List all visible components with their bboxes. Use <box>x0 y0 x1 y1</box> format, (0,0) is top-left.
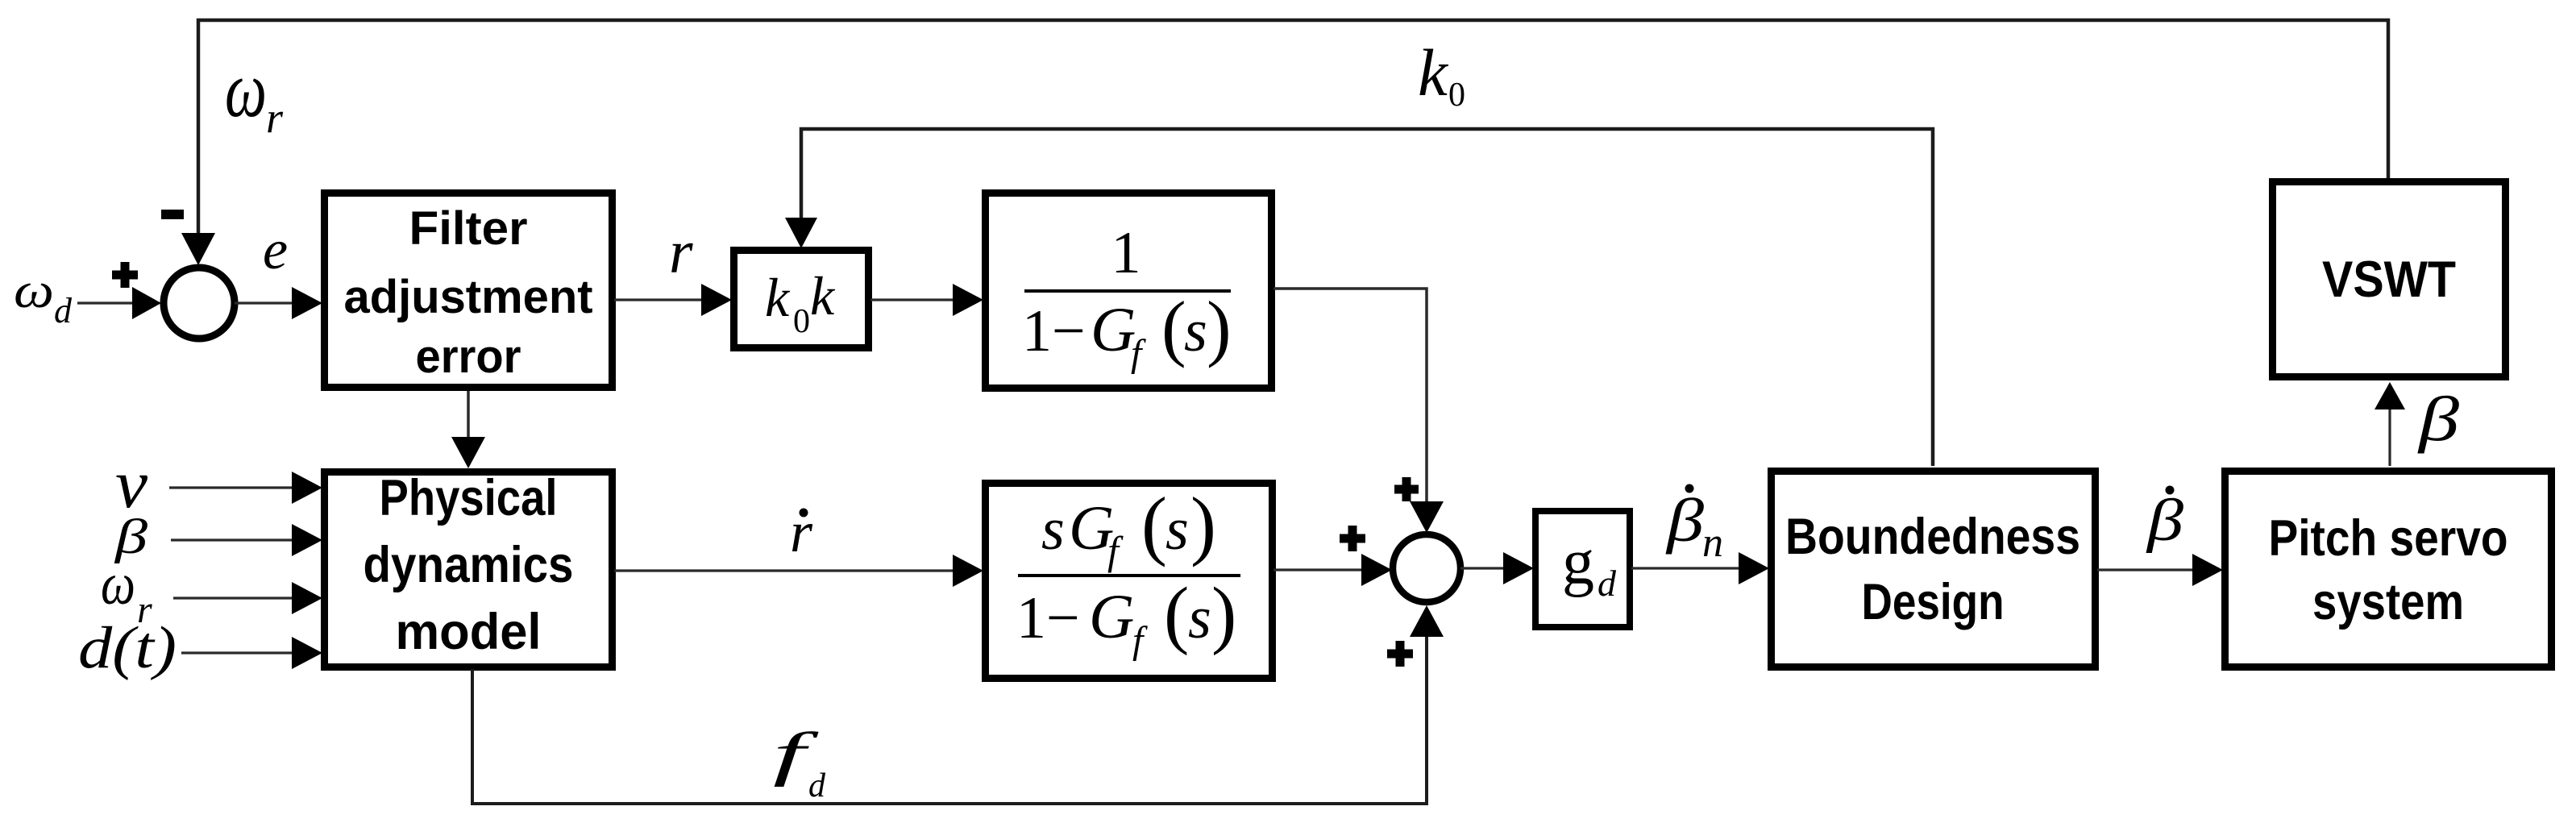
svg-text:s: s <box>1184 298 1207 364</box>
wire v input <box>169 486 293 488</box>
wire sGf block to S2 left <box>1273 568 1363 571</box>
svg-text:d(t): d(t) <box>78 615 177 681</box>
wire k0k to 1/(1-Gf(s)) <box>870 298 954 301</box>
svg-text:): ) <box>1190 481 1216 567</box>
block Physical dynamics model <box>325 470 613 667</box>
svg-text:1: 1 <box>1016 585 1046 651</box>
svg-text:β: β <box>2146 488 2184 554</box>
wire beta input <box>171 538 293 541</box>
wire S2 to g_d <box>1460 567 1505 569</box>
svg-text:d: d <box>1598 563 1617 604</box>
svg-text:Filter: Filter <box>409 202 528 255</box>
svg-text:ω: ω <box>14 264 54 318</box>
svg-text:n: n <box>1702 520 1723 566</box>
svg-text:0: 0 <box>1448 77 1465 114</box>
svg-text:VSWT: VSWT <box>2322 251 2456 308</box>
svg-text:): ) <box>1211 572 1236 656</box>
arrowhead into g_d <box>1503 552 1534 584</box>
svg-text:β: β <box>2416 384 2459 454</box>
label plus sign at S1 <box>112 262 138 288</box>
wire omega_d input to S1 <box>77 301 134 304</box>
svg-text:adjustment: adjustment <box>344 271 593 323</box>
wire g_d to Boundedness Design <box>1631 567 1740 569</box>
svg-text:s: s <box>1165 497 1189 563</box>
svg-text:(: ( <box>1141 481 1167 567</box>
label plus sign at S2 left <box>1340 526 1365 551</box>
svg-text:): ) <box>1207 286 1232 368</box>
wire Filter adjustment error down to Physical dynamics model <box>467 391 470 439</box>
svg-text:d: d <box>54 291 73 330</box>
wire Filter adjustment error to k0k <box>614 298 703 301</box>
block VSWT <box>2273 182 2506 377</box>
wire d(t) input <box>181 651 293 654</box>
svg-text:(: ( <box>1164 572 1189 656</box>
arrowhead into sGf block <box>953 555 983 587</box>
wire Boundedness Design to Pitch servo system <box>2097 568 2194 571</box>
svg-text:Pitch servo: Pitch servo <box>2269 510 2508 567</box>
svg-text:error: error <box>416 330 521 383</box>
block g_d <box>1535 511 1630 627</box>
arrowhead beta into Physical dynamics model <box>292 524 322 556</box>
svg-text:model: model <box>396 604 542 660</box>
svg-text:dynamics: dynamics <box>364 537 574 593</box>
svg-text:(: ( <box>1161 286 1186 368</box>
block Boundedness Design <box>1772 472 2096 667</box>
svg-text:Boundedness: Boundedness <box>1785 509 2080 565</box>
wire Pitch servo system to VSWT (beta) <box>2388 408 2391 466</box>
svg-text:g: g <box>1562 527 1594 598</box>
svg-text:s: s <box>1041 497 1065 563</box>
svg-text:k: k <box>765 267 791 328</box>
arrowhead into Boundedness Design <box>1739 552 1769 584</box>
wire omega_r top feedback (VSWT top to summing junction S1) <box>198 20 2388 235</box>
svg-text:1: 1 <box>1111 220 1141 286</box>
wire S1 to Filter adjustment error <box>235 301 293 304</box>
svg-text:k: k <box>1418 35 1449 110</box>
arrowhead into summing junction S1 top <box>181 233 215 265</box>
label k0 <box>1418 35 1465 114</box>
svg-text:r: r <box>266 94 284 142</box>
svg-text:Physical: Physical <box>380 470 558 526</box>
block Filter adjustment error <box>325 193 613 388</box>
label omega_r (top) <box>225 44 284 142</box>
arrowhead into k0k left <box>701 284 732 316</box>
arrowhead into 1/(1-Gf(s)) <box>953 284 983 316</box>
label omega_d input <box>14 264 73 330</box>
label plus sign at S2 bottom <box>1387 641 1413 667</box>
svg-text:β: β <box>1665 487 1705 555</box>
svg-text:G: G <box>1091 294 1136 364</box>
summing junction S2 <box>1393 534 1460 602</box>
svg-text:ω: ω <box>101 551 135 617</box>
arrowhead into VSWT bottom <box>2374 382 2405 409</box>
svg-text:0: 0 <box>793 303 810 340</box>
label beta dot <box>2146 486 2184 555</box>
arrowhead into k0k top <box>785 218 817 248</box>
label r dot <box>790 500 813 564</box>
arrowhead d(t) into Physical dynamics model <box>292 637 322 669</box>
wire 1/(1-Gf(s)) to summing junction S2 top <box>1273 289 1427 503</box>
arrowhead into S2 bottom <box>1410 605 1444 637</box>
wire omega_r input <box>173 596 293 599</box>
svg-text:−: − <box>1052 298 1086 364</box>
summing junction S1 <box>164 268 235 339</box>
arrowhead into S1 left <box>132 287 161 319</box>
svg-text:e: e <box>263 219 288 281</box>
wire k0 feedback (Boundedness Design top to k0k top) <box>801 129 1933 466</box>
arrowhead into Pitch servo system <box>2192 554 2223 586</box>
label beta_n dot <box>1665 484 1723 567</box>
svg-text:ω: ω <box>225 44 267 134</box>
arrowhead omega_r into Physical dynamics model <box>292 582 322 614</box>
wire f_d feedback (Physical dynamics model bottom to S2 bottom) <box>472 635 1427 804</box>
label f_d <box>773 721 826 804</box>
block Pitch servo system <box>2225 472 2552 667</box>
block 1/(1-Gf(s)) <box>986 193 1272 389</box>
svg-text:d: d <box>808 767 826 804</box>
label minus sign at S1 <box>161 210 184 219</box>
svg-text:1: 1 <box>1022 298 1052 364</box>
svg-text:system: system <box>2312 574 2464 630</box>
block sGf(s)/(1-Gf(s)) <box>986 481 1273 679</box>
arrowhead v into Physical dynamics model <box>292 472 322 504</box>
svg-text:G: G <box>1089 581 1134 651</box>
arrowhead into S2 left <box>1361 554 1392 586</box>
arrowhead into Filter adjustment error <box>292 287 322 319</box>
svg-text:k: k <box>810 265 836 326</box>
label omega_r input <box>101 551 152 631</box>
wire Physical dynamics model to sGf block (r dot) <box>614 569 954 572</box>
svg-text:r: r <box>669 218 693 286</box>
svg-text:−: − <box>1046 585 1080 651</box>
svg-text:s: s <box>1188 585 1211 651</box>
block k0k <box>734 251 869 348</box>
arrowhead into S2 top <box>1410 501 1444 533</box>
arrowhead into Physical dynamics model top <box>451 437 485 468</box>
svg-text:Design: Design <box>1862 574 2005 630</box>
label plus sign at S2 top <box>1394 477 1419 501</box>
